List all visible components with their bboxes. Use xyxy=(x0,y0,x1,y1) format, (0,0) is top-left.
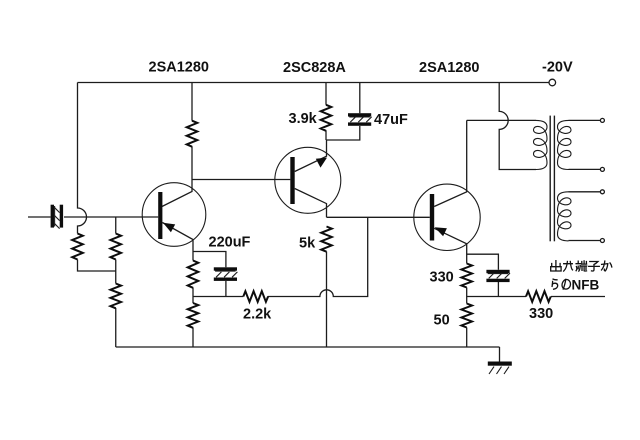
svg-text:2SA1280: 2SA1280 xyxy=(149,60,209,76)
svg-text:330: 330 xyxy=(529,306,553,322)
svg-text:5k: 5k xyxy=(299,236,316,252)
svg-text:47uF: 47uF xyxy=(374,112,408,128)
svg-text:NFB: NFB xyxy=(572,278,600,293)
svg-text:220uF: 220uF xyxy=(209,235,251,251)
svg-text:-20V: -20V xyxy=(542,60,573,76)
svg-text:2.2k: 2.2k xyxy=(243,307,272,323)
svg-text:2SA1280: 2SA1280 xyxy=(419,60,479,76)
svg-text:2SC828A: 2SC828A xyxy=(283,60,346,76)
svg-text:3.9k: 3.9k xyxy=(289,111,318,127)
svg-text:50: 50 xyxy=(434,313,450,329)
svg-text:330: 330 xyxy=(430,270,454,286)
